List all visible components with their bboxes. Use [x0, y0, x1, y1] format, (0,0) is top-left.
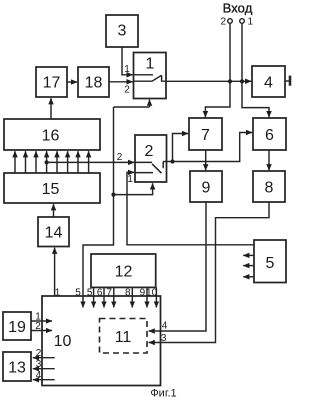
wire block 10 to block 13 line 3 [33, 368, 55, 370]
block 5 [254, 240, 286, 283]
wire bus 15 to 16 line 5 [56, 151, 58, 173]
svg-text:6: 6 [265, 127, 274, 144]
junction dot terminal 2 line on rail [228, 79, 232, 83]
svg-text:2: 2 [117, 152, 123, 163]
wire block 6 to block 8 [268, 150, 270, 170]
wire bus 15 to 16 line 1 [14, 151, 16, 173]
block 16 [4, 119, 100, 150]
wire block 19 output 1 [31, 320, 52, 322]
wire block 7 to block 9 [205, 150, 207, 170]
wire block 5 to block 2 input 1 [127, 172, 254, 244]
svg-text:18: 18 [85, 75, 103, 92]
wire bus 15 to 16 line 8 [88, 151, 90, 173]
wire bus 15 to 16 line 3 [35, 151, 37, 173]
wire branch to block 2 bottom [114, 183, 153, 194]
svg-text:19: 19 [8, 319, 26, 336]
block 18 [78, 67, 109, 97]
block 4 [252, 66, 285, 97]
svg-text:7: 7 [201, 127, 210, 144]
block 5 output stub c [243, 276, 254, 278]
wire block 17 to block 18 [67, 81, 77, 83]
svg-text:2: 2 [145, 143, 154, 160]
junction dot on bus line 4 [45, 160, 49, 164]
svg-text:12: 12 [115, 263, 133, 280]
switch contacts inside block 1 [134, 75, 167, 81]
block 11 (dashed) [100, 319, 148, 354]
block 15 [4, 173, 100, 203]
svg-text:2: 2 [35, 321, 41, 332]
wire feed to block 1 lower input [114, 100, 150, 107]
wire bus 15 to 16 line 2 [25, 151, 27, 173]
svg-text:1: 1 [248, 17, 254, 28]
junction dot on net x113 [111, 193, 115, 197]
wire block 10 to block 13 line 2 [33, 357, 55, 359]
switch contacts inside block 2 [135, 162, 167, 174]
wire bus 15 to 16 line 4 [46, 151, 48, 173]
svg-text:5: 5 [266, 255, 275, 272]
wire input terminal 1 down [241, 24, 243, 82]
svg-text:2: 2 [36, 348, 42, 359]
svg-text:13: 13 [8, 359, 26, 376]
block 17 [36, 67, 67, 97]
block 1 (switch) [134, 53, 167, 99]
wire tap to block 2 input 2 [47, 161, 135, 163]
block 8 [253, 171, 285, 202]
wire block 12 pin 6 [103, 287, 105, 307]
svg-text:4: 4 [264, 74, 273, 91]
input terminal 1 [240, 17, 254, 28]
wire block 10 pin 1 to block 14 [54, 248, 56, 296]
wire block 18 to block 1 input 2 [109, 81, 133, 83]
block 10 [42, 296, 161, 386]
svg-text:3: 3 [161, 333, 167, 344]
wire bus 15 to 16 line 6 [67, 151, 69, 173]
wire block 1 output rail to block 4 [166, 80, 251, 82]
svg-text:15: 15 [42, 181, 60, 198]
wire block 9 output to block 11 pin 4 [149, 202, 206, 331]
wire bus 15 to 16 line 7 [77, 151, 79, 173]
block 13 [3, 352, 31, 381]
block 5 output stub a [243, 254, 254, 256]
svg-text:Фиг.1: Фиг.1 [150, 388, 176, 400]
svg-text:14: 14 [45, 225, 63, 242]
wire block 19 output 2 [31, 330, 52, 332]
block 2 (switch) [135, 135, 167, 182]
block 7 [189, 118, 222, 150]
svg-text:1: 1 [124, 64, 130, 75]
svg-text:3: 3 [36, 359, 42, 370]
svg-text:4: 4 [36, 370, 42, 381]
input terminal 2 [220, 17, 232, 28]
block 5 output stub b [243, 265, 254, 267]
svg-text:10: 10 [54, 333, 72, 350]
wire block 14 to block 15 [53, 204, 55, 217]
svg-text:1: 1 [127, 174, 133, 185]
output terminal symbol of block 4 [285, 76, 290, 86]
wire block 3 output to block 1 input 1 [122, 47, 133, 75]
block 19 [3, 312, 31, 340]
block 6 [253, 118, 286, 150]
svg-text:17: 17 [43, 75, 61, 92]
wire block 12 pin 5 [93, 287, 95, 307]
svg-text:11: 11 [115, 329, 132, 346]
wire block 12 pin 10 [155, 287, 157, 307]
block 14 [38, 217, 69, 247]
wire block 10 to block 13 line 4 [33, 379, 55, 381]
svg-text:4: 4 [162, 321, 168, 332]
svg-text:9: 9 [202, 179, 211, 196]
wire block 8 output to block 11 pin 3 [149, 202, 269, 343]
wire block 16 to block 17 [50, 98, 52, 119]
svg-text:1: 1 [146, 56, 155, 73]
svg-text:16: 16 [42, 127, 60, 144]
wire terminal 1 line down to block 6 [242, 82, 269, 118]
wire branch to block 7 input [173, 134, 189, 162]
wire block 12 pin 7 [113, 287, 115, 307]
block 9 [190, 171, 222, 202]
junction dot terminal 1 line on rail [240, 79, 244, 83]
wire vertical net x113 [83, 107, 114, 308]
wire terminal 2 line down to block 7 [205, 82, 230, 118]
svg-text:2: 2 [220, 17, 226, 28]
svg-text:8: 8 [265, 179, 274, 196]
svg-text:3: 3 [118, 22, 127, 39]
wire block 2 output rail to block 6 [167, 133, 253, 162]
wire input terminal 2 down [229, 24, 231, 82]
svg-text:2: 2 [124, 85, 130, 96]
svg-text:Вход: Вход [223, 0, 253, 15]
wire block 12 pin 8 [131, 287, 133, 307]
block 3 [106, 15, 138, 47]
block 12 [91, 254, 156, 287]
junction dot on block 2 output [170, 159, 174, 163]
wire block 12 pin 9 [146, 287, 148, 307]
